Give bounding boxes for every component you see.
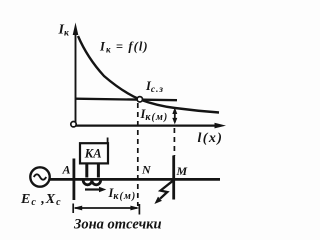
arrow current direction Iк(м)	[85, 187, 106, 193]
tick artifact above KA box	[107, 138, 109, 144]
svg-text:Зона отсечки: Зона отсечки	[73, 217, 162, 233]
bus M bar	[172, 156, 175, 200]
arrow Iк(м) ordinate at M	[172, 108, 177, 125]
node origin (open circle)	[71, 122, 76, 127]
dashed line from axis down to M	[173, 128, 175, 156]
node N intersection (open circle)	[137, 97, 142, 102]
relay KA box	[80, 143, 108, 163]
line Iс.з setting level	[76, 99, 178, 101]
svg-text:КА: КА	[84, 146, 102, 160]
svg-text:l(x): l(x)	[198, 131, 224, 146]
bus A bar	[73, 159, 76, 201]
svg-text:A: A	[62, 163, 71, 177]
generator G source	[30, 167, 49, 186]
dimension zone arrows (Зона отсечки)	[73, 204, 140, 215]
dashed line from N down to zone end	[137, 103, 139, 206]
wire main line	[50, 178, 221, 181]
curve Iк = f(l)	[78, 36, 219, 113]
svg-text:Ec ,Xc: Ec ,Xc	[20, 192, 62, 208]
x-axis l(x)	[74, 123, 226, 129]
CT TA leads to relay	[87, 164, 99, 178]
fault arrow at M (lightning)	[154, 181, 172, 204]
y-axis Iк	[73, 23, 79, 125]
svg-text:N: N	[141, 163, 152, 177]
svg-text:M: M	[176, 164, 188, 178]
CT TA loops on line	[83, 180, 100, 185]
